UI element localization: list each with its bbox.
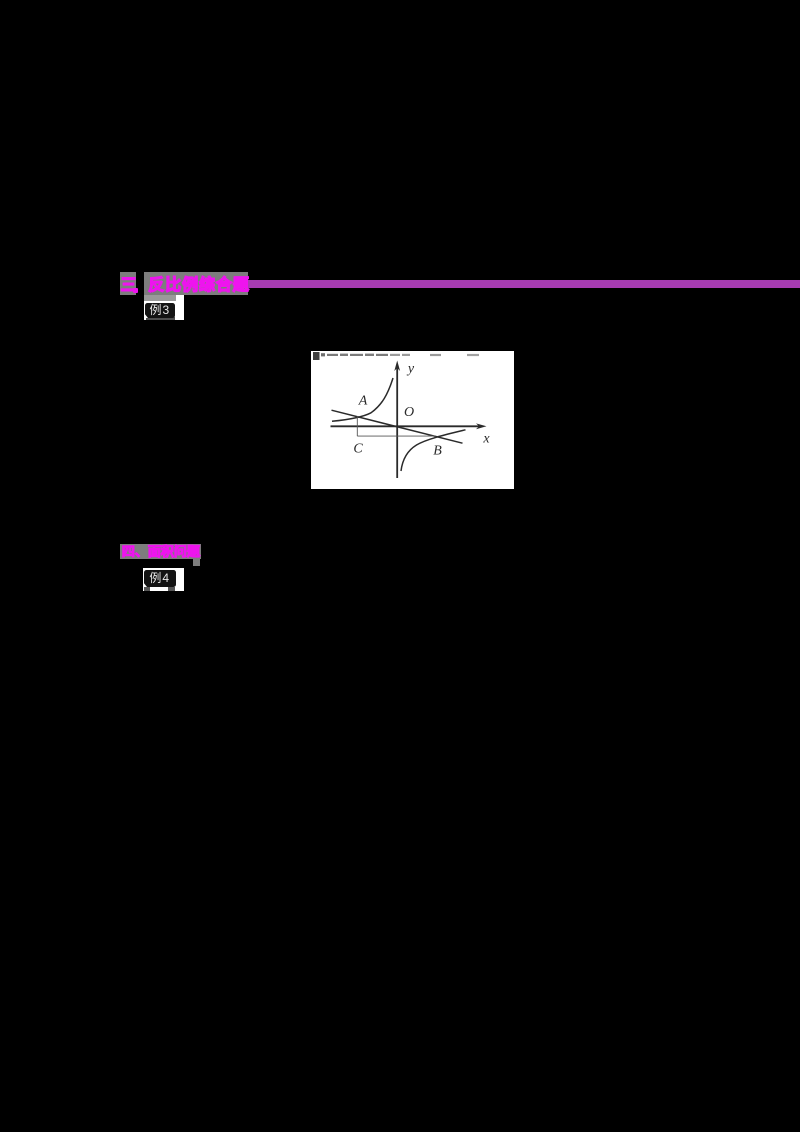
svg-text:x: x <box>482 432 490 447</box>
x axis arrowhead <box>476 423 487 429</box>
section heading 3 : character 三 <box>121 277 137 294</box>
example 4 snippet : black label box <box>144 570 177 587</box>
section heading 3 : gray highlight block (part 2) <box>144 272 248 295</box>
graph figure panel <box>311 351 514 489</box>
example 4 snippet : gray square left <box>144 587 150 591</box>
line through A and B <box>332 410 463 443</box>
x axis <box>331 425 483 427</box>
example 3 snippet : black label box <box>145 303 176 318</box>
section heading 4 : title text <box>122 545 202 559</box>
svg-text:O: O <box>404 405 414 420</box>
hyperbola branch quadrant II <box>332 378 393 421</box>
svg-text:B: B <box>433 444 442 459</box>
vertical segment A to C <box>356 416 358 436</box>
example 4 snippet : white paper patch <box>143 568 184 591</box>
example 3 snippet : white paper patch <box>144 295 184 320</box>
y axis arrowhead <box>394 361 400 372</box>
horizontal segment C to B <box>357 435 435 437</box>
section heading 3 : comma blob <box>133 288 138 293</box>
example 4 snippet : gray square right <box>168 587 175 591</box>
example 3 snippet : dark shadow strip <box>146 317 175 320</box>
svg-text:y: y <box>406 362 415 377</box>
example 3 snippet : white notch bottom-left <box>144 313 148 318</box>
svg-text:C: C <box>353 442 363 457</box>
section heading 3 : gray highlight block (part 1) <box>120 272 135 295</box>
hyperbola branch quadrant IV <box>401 430 466 471</box>
example 4 snippet : white notch bottom-left <box>143 582 147 587</box>
section heading 3 : title text <box>148 277 250 294</box>
clipped text smudge row <box>313 352 479 360</box>
example 3 snippet : gray bar on top <box>144 295 176 301</box>
section heading 3 : purple rule <box>248 280 800 288</box>
y axis <box>396 365 398 478</box>
section heading 4 : gray descender <box>193 559 201 566</box>
section heading 4 : gray highlight <box>120 544 201 560</box>
svg-text:A: A <box>358 394 368 409</box>
